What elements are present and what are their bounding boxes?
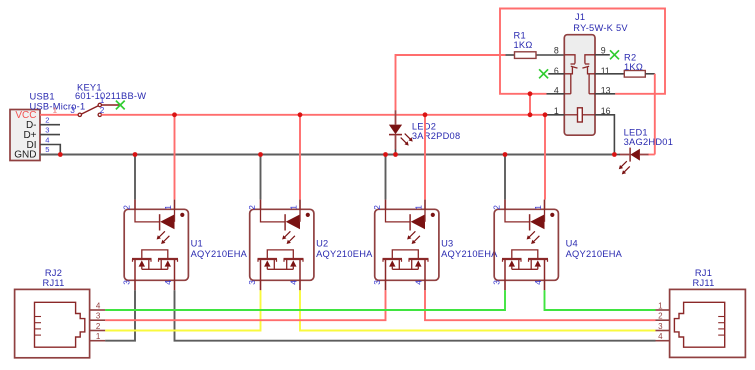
svg-text:U4: U4 xyxy=(566,238,578,248)
svg-text:3: 3 xyxy=(658,322,663,331)
connector RJ2 body xyxy=(15,289,90,357)
svg-text:1: 1 xyxy=(658,301,663,310)
RJ1 pin 1 stub xyxy=(656,309,670,311)
relay pin 9 stub xyxy=(595,54,610,56)
RJ2 jack contacts xyxy=(35,317,42,336)
svg-text:USB-Micro-1: USB-Micro-1 xyxy=(30,102,86,112)
opto relay U4 xyxy=(492,200,559,291)
junction VCC bus / loop xyxy=(528,112,533,117)
wire VCC from USB1 to KEY1 xyxy=(40,114,78,116)
relay J1 coil xyxy=(578,108,583,122)
wire R2 to LED1 anode xyxy=(654,74,656,155)
wire VCC bus xyxy=(101,114,546,116)
svg-text:U3: U3 xyxy=(441,238,453,248)
svg-text:2: 2 xyxy=(45,116,49,125)
junction loop / VCC drop xyxy=(528,91,533,96)
svg-text:8: 8 xyxy=(554,45,559,55)
stub from throw 1 to no-connect xyxy=(101,104,119,106)
RJ1 pin 2 stub xyxy=(656,319,670,321)
wire green net RJ2 pin4 to U4 pin3 xyxy=(105,290,505,310)
junction VCC bus / U1 pin1 xyxy=(172,112,177,117)
pin 2 stub D- xyxy=(40,124,60,126)
wire U4 pin2 to GND bus xyxy=(504,155,506,200)
RJ1 jack outline xyxy=(674,302,724,347)
svg-text:AQY210EHA: AQY210EHA xyxy=(566,249,623,259)
junction GND bus / LED1 cathode xyxy=(612,152,617,157)
wire loop around relay (pin 4 to pin 13) xyxy=(500,9,665,94)
svg-text:RY-5W-K 5V: RY-5W-K 5V xyxy=(573,23,628,33)
svg-text:1: 1 xyxy=(96,332,101,341)
relay pin 1 stub xyxy=(547,114,565,116)
wire U2 pin1 to VCC bus xyxy=(299,115,301,200)
svg-text:4: 4 xyxy=(96,301,101,310)
junction GND bus / U2 pin2 xyxy=(258,152,263,157)
switch KEY1 throw 2 contact xyxy=(98,113,101,116)
wire red net U3 pin4 to RJ1 pin2 xyxy=(425,290,656,320)
switch KEY1 throw 1 contact xyxy=(98,103,101,106)
svg-text:2: 2 xyxy=(100,106,105,115)
LED D2 xyxy=(389,110,413,154)
no-connect X on relay pin 9 xyxy=(610,50,619,59)
relay pin 6 stub xyxy=(548,73,564,75)
svg-text:1: 1 xyxy=(100,96,105,105)
svg-text:R1: R1 xyxy=(514,30,526,40)
RJ2 pin 4 stub xyxy=(90,309,106,311)
svg-text:J1: J1 xyxy=(575,12,585,22)
relay pin 16 stub and wire to GND xyxy=(595,115,614,155)
wire yellow net RJ2 pin2 to U2 pin3 xyxy=(105,290,260,330)
connector USB1 body xyxy=(10,110,40,161)
relay pin 4 stub xyxy=(547,93,565,95)
svg-text:USB1: USB1 xyxy=(30,92,55,102)
svg-text:3: 3 xyxy=(96,312,101,321)
wire gray net RJ2 pin1 to U1 pin3 xyxy=(105,290,135,340)
relay J1 internal contacts xyxy=(564,55,595,115)
wire gray net U1 pin4 to RJ1 pin4 xyxy=(175,290,656,340)
no-connect X on relay pin 6 xyxy=(539,69,548,78)
relay J1 body xyxy=(564,35,595,136)
wire U1 pin1 to VCC bus xyxy=(174,115,176,200)
relay pin 11 stub xyxy=(595,73,624,75)
svg-text:U1: U1 xyxy=(191,238,203,248)
wire green net U4 pin4 to RJ1 pin1 xyxy=(545,290,656,310)
wire R1/LED2 feed xyxy=(396,55,506,110)
wire red net RJ2 pin3 to U3 pin3 xyxy=(105,290,385,320)
svg-text:RJ11: RJ11 xyxy=(42,278,64,288)
svg-text:RJ1: RJ1 xyxy=(695,268,712,278)
svg-text:601-10211BB-W: 601-10211BB-W xyxy=(75,91,146,101)
svg-text:2: 2 xyxy=(96,322,101,331)
junction GND bus / LED2 cathode xyxy=(393,152,398,157)
opto relay U1 xyxy=(122,200,189,291)
svg-text:3: 3 xyxy=(70,106,75,115)
switch KEY1 lever xyxy=(81,106,98,114)
junction VCC bus / U4 pin1 xyxy=(543,112,548,117)
RJ1 jack contacts xyxy=(718,317,725,336)
wire loop to VCC bus xyxy=(529,94,531,115)
svg-text:5: 5 xyxy=(45,145,49,154)
pin 4 stub DI bent to GND xyxy=(40,145,60,155)
opto relay U2 xyxy=(247,200,314,291)
RJ2 pin 1 stub xyxy=(90,340,106,342)
junction VCC bus / U2 pin1 xyxy=(298,112,303,117)
no-connect X on KEY1 pin 1 xyxy=(116,101,125,110)
wire U1 pin2 to GND bus xyxy=(134,155,136,200)
svg-text:GND: GND xyxy=(14,150,36,161)
svg-text:3: 3 xyxy=(45,125,49,134)
relay pin 13 stub xyxy=(595,93,615,95)
wire GND bus xyxy=(40,154,614,156)
connector RJ1 body xyxy=(670,289,746,357)
svg-text:4: 4 xyxy=(45,135,49,144)
svg-text:2: 2 xyxy=(658,312,663,321)
svg-text:3AR2PD08: 3AR2PD08 xyxy=(412,131,461,141)
RJ1 pin 4 stub xyxy=(656,340,670,342)
svg-text:AQY210EHA: AQY210EHA xyxy=(316,249,373,259)
svg-text:1KΩ: 1KΩ xyxy=(514,40,533,50)
RJ1 pin 3 stub xyxy=(656,330,670,332)
svg-text:LED1: LED1 xyxy=(624,127,648,137)
svg-text:AQY210EHA: AQY210EHA xyxy=(441,249,498,259)
opto relay U3 xyxy=(372,200,439,291)
junction GND bus / U4 pin2 xyxy=(503,152,508,157)
svg-text:U2: U2 xyxy=(316,238,328,248)
junction VCC bus / U3 pin1 xyxy=(423,112,428,117)
junction GND bus / U3 pin2 xyxy=(383,152,388,157)
svg-text:AQY210EHA: AQY210EHA xyxy=(191,249,248,259)
RJ2 pin 3 stub xyxy=(90,319,106,321)
LED D1 xyxy=(614,148,654,175)
junction GND bus / USB DI xyxy=(58,152,63,157)
svg-text:RJ11: RJ11 xyxy=(692,278,714,288)
svg-text:9: 9 xyxy=(601,45,606,55)
switch KEY1 common contact xyxy=(78,113,81,116)
RJ2 pin 2 stub xyxy=(90,330,106,332)
resistor R2 xyxy=(624,71,655,78)
svg-text:1: 1 xyxy=(53,106,57,115)
pin 5 stub GND xyxy=(40,154,48,156)
wire U3 pin2 to GND bus xyxy=(385,155,387,200)
wire U3 pin1 to VCC bus xyxy=(424,115,426,200)
svg-text:4: 4 xyxy=(658,332,663,341)
pin 3 stub D+ xyxy=(40,134,60,136)
svg-text:RJ2: RJ2 xyxy=(45,268,62,278)
svg-text:R2: R2 xyxy=(624,52,636,62)
wire U2 pin2 to GND bus xyxy=(260,155,262,200)
svg-text:1KΩ: 1KΩ xyxy=(624,62,643,72)
resistor R1 xyxy=(506,52,565,59)
wire U4 pin1 to VCC bus xyxy=(544,115,546,200)
RJ2 jack outline xyxy=(35,302,85,347)
junction GND bus / U1 pin2 xyxy=(133,152,138,157)
wire yellow net U2 pin4 to RJ1 pin3 xyxy=(300,290,656,330)
svg-text:3AG2HD01: 3AG2HD01 xyxy=(624,137,674,147)
